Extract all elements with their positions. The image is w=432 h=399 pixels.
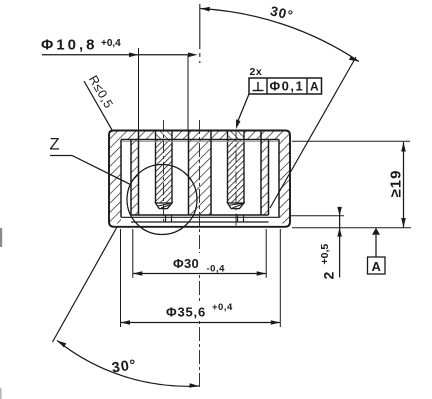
svg-text:Φ0,1: Φ0,1 <box>270 79 305 94</box>
leader R<=0,5 <box>84 73 116 130</box>
hole right walls <box>210 131 212 216</box>
groove top edges under band <box>121 139 279 141</box>
dimension Ø30 -0,4 <box>133 229 266 278</box>
small hole under left screw <box>166 215 172 222</box>
svg-text:-0,4: -0,4 <box>207 264 226 275</box>
detail marker Z label and leader <box>50 136 131 185</box>
svg-text:≥19: ≥19 <box>388 170 405 198</box>
centerline right hole <box>235 130 237 229</box>
detail circle Z <box>127 165 197 235</box>
dimension >=19 <box>388 142 406 228</box>
screw left tip <box>156 203 173 209</box>
housing outline <box>109 131 290 227</box>
small hole under right screw <box>238 215 244 222</box>
dimension line Ø10,8 <box>42 48 198 131</box>
scan artifact left edge <box>0 228 2 247</box>
svg-text:Φ35,6: Φ35,6 <box>166 305 206 320</box>
groove left walls <box>120 140 122 218</box>
hatched top band of housing <box>109 131 290 140</box>
svg-text:+0,4: +0,4 <box>101 38 121 49</box>
dimension Ø35,6 +0,4 <box>121 229 281 327</box>
svg-text:2: 2 <box>321 272 337 280</box>
svg-text:Z: Z <box>50 136 60 154</box>
screw right band section <box>228 131 245 140</box>
screw right shank hatched <box>228 131 245 204</box>
feature control frame 2x perpendicularity <box>236 66 322 129</box>
svg-text:2x: 2x <box>250 66 263 78</box>
bottom angle 30 deg arc <box>57 341 199 388</box>
label Ø10,8 +0,4 <box>41 37 121 54</box>
extension line top right shoulder <box>292 140 410 142</box>
extension line flange top right <box>291 215 344 217</box>
top angle slant line <box>270 57 356 208</box>
svg-text:Φ30: Φ30 <box>173 256 199 271</box>
hatched outer wall left <box>109 131 121 224</box>
screw left shank hatched <box>156 131 173 204</box>
svg-text:+0,4: +0,4 <box>212 302 233 313</box>
hatched middle wall <box>189 140 212 216</box>
screw right tip <box>228 203 245 209</box>
top angle 30 deg arc <box>200 3 359 61</box>
groove right walls <box>268 140 270 216</box>
faint seam line under band <box>122 140 278 142</box>
cavity floor line <box>131 214 269 216</box>
dimension 2 +0,5 <box>319 207 342 280</box>
svg-text:A: A <box>310 80 319 94</box>
hatched outer wall right <box>279 131 290 224</box>
hatched inner wall left <box>131 140 139 216</box>
centerline part axis <box>199 4 201 63</box>
svg-text:+0,5: +0,5 <box>319 244 331 265</box>
svg-text:A: A <box>372 259 382 274</box>
extension line bottom face right <box>292 227 411 229</box>
bottom inner line <box>131 221 269 223</box>
hole left walls <box>138 131 140 216</box>
screw left band section <box>156 131 173 140</box>
bottom plate line <box>121 216 279 218</box>
svg-text:Φ10,8: Φ10,8 <box>41 37 98 54</box>
hatched inner wall right <box>261 140 269 216</box>
bottom angle slant line <box>53 227 118 342</box>
centerline left hole <box>163 120 165 225</box>
datum A symbol <box>368 228 386 274</box>
